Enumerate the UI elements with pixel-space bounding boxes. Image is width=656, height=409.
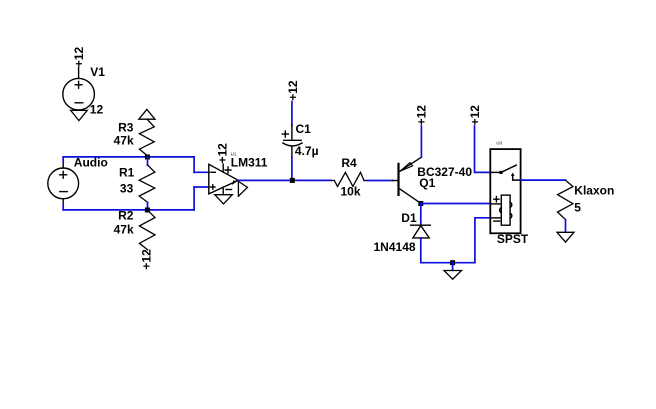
wire D1 anode down and right	[421, 238, 475, 263]
resistor R2	[139, 210, 155, 250]
svg-text:D1: D1	[401, 211, 417, 225]
svg-text:U3: U3	[496, 140, 502, 145]
junction node output/C1	[290, 178, 295, 183]
svg-text:C1: C1	[296, 122, 312, 136]
capacitor C1 (polarized)	[282, 125, 302, 158]
op-amp output emitter arrow	[232, 180, 237, 185]
relay switch arrow head	[511, 173, 515, 176]
wire R4 to Q1 base	[367, 180, 393, 182]
wire Klaxon to ground	[565, 220, 567, 232]
svg-text:LM311: LM311	[231, 156, 268, 170]
svg-text:R4: R4	[341, 156, 357, 170]
svg-text:+12: +12	[216, 143, 230, 164]
svg-text:Q1: Q1	[419, 176, 435, 190]
svg-text:1N4148: 1N4148	[374, 240, 416, 254]
svg-text:47k: 47k	[114, 223, 134, 237]
wire Audio bottom net	[63, 187, 209, 210]
wire relay switch output to Klaxon	[521, 179, 566, 181]
svg-text:33: 33	[120, 182, 134, 196]
wire up to relay coil -	[475, 218, 490, 263]
ground (D1/relay)	[444, 271, 462, 280]
wire junction to ground	[452, 263, 454, 271]
svg-text:R1: R1	[119, 165, 135, 179]
junction node D1/ground/relay-	[450, 260, 455, 265]
svg-text:10k: 10k	[341, 184, 361, 198]
svg-text:Klaxon: Klaxon	[574, 184, 614, 198]
wire collector to relay coil +	[421, 203, 491, 205]
wire Q1 emitter to +12	[420, 126, 422, 157]
wire R1 bottom lead	[147, 202, 149, 210]
ground (Klaxon)	[557, 232, 574, 242]
resistor R3	[139, 120, 154, 156]
voltage source Audio	[48, 162, 79, 205]
relay U3 box	[490, 149, 520, 233]
svg-text:4.7µ: 4.7µ	[295, 144, 319, 158]
svg-text:+12: +12	[72, 47, 86, 68]
wire +12 to relay switch	[475, 126, 491, 172]
resistor R1	[139, 165, 155, 202]
transistor Q1 BC327-40 (PNP)	[393, 157, 421, 203]
wire op-amp output net	[239, 179, 332, 181]
wire C1 bottom	[291, 157, 293, 180]
relay coil	[490, 195, 512, 225]
svg-text:V1: V1	[90, 65, 105, 79]
flag (R3 top, inverted ground)	[139, 109, 155, 119]
svg-text:5: 5	[574, 201, 581, 215]
wire R1 top lead	[147, 157, 149, 165]
svg-text:SPST: SPST	[497, 232, 529, 246]
ground (V1 bottom)	[71, 110, 88, 120]
wire collector down to D1	[420, 204, 422, 225]
svg-text:+12: +12	[286, 80, 300, 101]
resistor R4	[331, 172, 367, 186]
svg-text:47k: 47k	[114, 134, 134, 148]
junction node Audio-/R1/R2	[145, 208, 150, 213]
wire Audio top net	[63, 157, 209, 172]
wire C1 top	[291, 102, 293, 126]
svg-text:+12: +12	[415, 105, 429, 126]
svg-text:R2: R2	[118, 208, 134, 222]
op-amp U1 LM311	[209, 164, 239, 195]
svg-text:12: 12	[90, 102, 104, 116]
junction node Q1 collector	[418, 201, 423, 206]
junction node Audio/R3/R1	[145, 155, 150, 160]
relay switch contact	[490, 165, 520, 180]
voltage source V1	[63, 68, 95, 110]
relay switch pivot dot	[500, 171, 503, 174]
diode D1	[411, 225, 431, 238]
resistor R5 Klaxon	[558, 180, 574, 219]
svg-text:+12: +12	[468, 105, 482, 126]
op-amp output stage (open collector)	[238, 181, 247, 196]
svg-text:+12: +12	[140, 249, 154, 270]
svg-text:R3: R3	[118, 120, 134, 134]
ground (op-amp V-)	[215, 195, 233, 204]
